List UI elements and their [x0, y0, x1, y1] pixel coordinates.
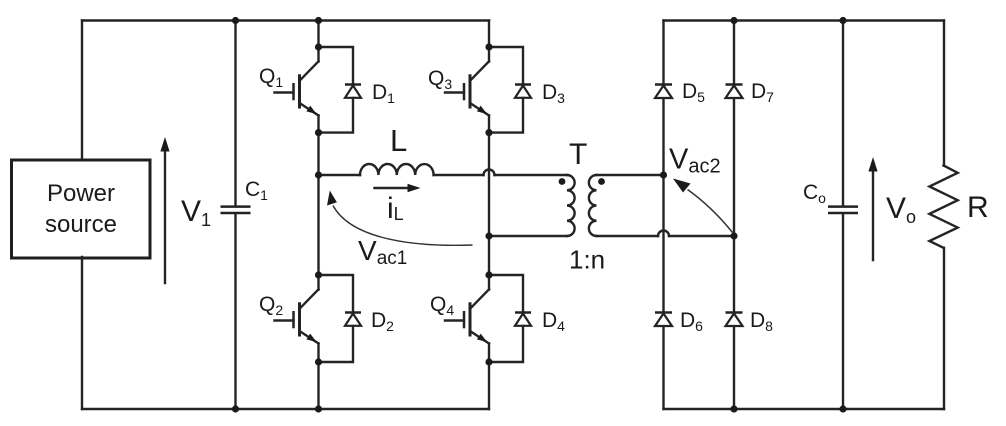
wire hop to D7/D8 leg	[669, 235, 734, 237]
node bottom rail / Q2 leg	[315, 405, 322, 412]
wire bridge mid node to inductor	[319, 174, 361, 176]
node Q1 emitter	[315, 129, 322, 136]
node bottom rail / D8 leg	[730, 405, 737, 412]
arrow V1	[160, 137, 169, 283]
wire bottom rail (left bridge)	[82, 408, 489, 410]
wire bottom rail (right rectifier)	[664, 408, 945, 410]
transformer primary polarity dot	[559, 178, 566, 185]
wire R leg upper	[943, 21, 945, 166]
node secondary top / D5 leg	[660, 171, 667, 178]
wire hop to transformer primary	[495, 174, 568, 176]
diode D7	[726, 85, 743, 99]
transistor Q4	[445, 289, 489, 343]
diode D5	[655, 85, 672, 99]
wire Q1/Q2 leg upper stub	[317, 21, 319, 62]
wire D5/D6 leg middle	[662, 98, 664, 312]
node secondary bottom / D7 leg	[730, 232, 737, 239]
power source box	[12, 160, 151, 258]
capacitor Co	[828, 207, 858, 213]
node top rail / Q1 leg	[315, 17, 322, 24]
diode D1	[319, 47, 362, 133]
wire secondary top lead	[597, 174, 664, 176]
resistor R	[929, 166, 957, 248]
transformer T primary winding	[567, 175, 575, 236]
diode D8	[726, 313, 743, 327]
wire hop over D5/D6 leg	[658, 231, 669, 237]
wire left vertical lower	[81, 257, 83, 409]
wire top rail (right rectifier)	[664, 19, 945, 21]
node bridge left midpoint	[315, 171, 322, 178]
diode D4	[489, 275, 531, 362]
wire left vertical upper	[81, 21, 83, 162]
arrow Vac2 (curved)	[673, 179, 733, 233]
wire C1 leg upper	[234, 21, 236, 206]
wire R leg lower	[943, 248, 945, 409]
node Q4 collector	[485, 271, 492, 278]
transistor Q2	[275, 289, 319, 343]
transistor Q3	[445, 61, 489, 115]
wire D5 leg upper	[662, 21, 664, 85]
wire Q1/Q2 leg lower stub	[317, 344, 319, 410]
diode D2	[319, 275, 362, 362]
node Q3 emitter	[485, 129, 492, 136]
node Q2 collector	[315, 271, 322, 278]
transistor Q1	[275, 61, 319, 115]
wire Q3/Q4 leg upper stub	[488, 21, 490, 62]
wire secondary bottom lead to hop	[597, 235, 659, 237]
node top rail / D7 leg	[730, 17, 737, 24]
svg-text:R: R	[967, 191, 989, 224]
wire D7 leg upper	[733, 21, 735, 85]
arrow Vo	[868, 157, 877, 260]
svg-text:L: L	[390, 123, 407, 158]
node Q2 emitter	[315, 358, 322, 365]
wire D7/D8 leg middle	[733, 98, 735, 312]
wire Q3/Q4 leg middle	[488, 116, 490, 290]
wire inductor to hop	[434, 174, 484, 176]
node top rail / Co leg	[839, 17, 846, 24]
node top rail / C1	[232, 17, 239, 24]
node bottom rail / C1	[232, 405, 239, 412]
node Q4 emitter	[485, 358, 492, 365]
node bridge right midpoint	[485, 232, 492, 239]
wire Co leg lower	[842, 214, 844, 409]
node bottom rail / Co leg	[839, 405, 846, 412]
wire hop over Q3/Q4 leg	[484, 170, 495, 176]
transformer T secondary winding	[589, 175, 597, 236]
wire Q3/Q4 leg lower stub	[488, 344, 490, 410]
arrow Vac1 (curved)	[327, 191, 473, 246]
diode D6	[655, 313, 672, 327]
wire primary bottom lead	[489, 235, 567, 237]
wire C1 leg lower	[234, 214, 236, 409]
wire D6 leg lower	[662, 326, 664, 409]
wire top rail (left bridge)	[82, 19, 489, 21]
diode D3	[489, 47, 531, 133]
wire Q1/Q2 leg middle	[317, 116, 319, 290]
wire Co leg upper	[842, 21, 844, 206]
arrow iL	[375, 184, 421, 192]
wire D8 leg lower	[733, 326, 735, 409]
transformer secondary polarity dot	[598, 178, 605, 185]
node Q1 collector	[315, 43, 322, 50]
inductor L	[360, 164, 434, 175]
capacitor C1	[221, 207, 251, 213]
svg-text:1:n: 1:n	[569, 245, 605, 275]
node Q3 collector	[485, 43, 492, 50]
svg-text:Power: Power	[47, 180, 115, 207]
svg-text:source: source	[45, 211, 117, 238]
svg-text:T: T	[569, 138, 587, 171]
